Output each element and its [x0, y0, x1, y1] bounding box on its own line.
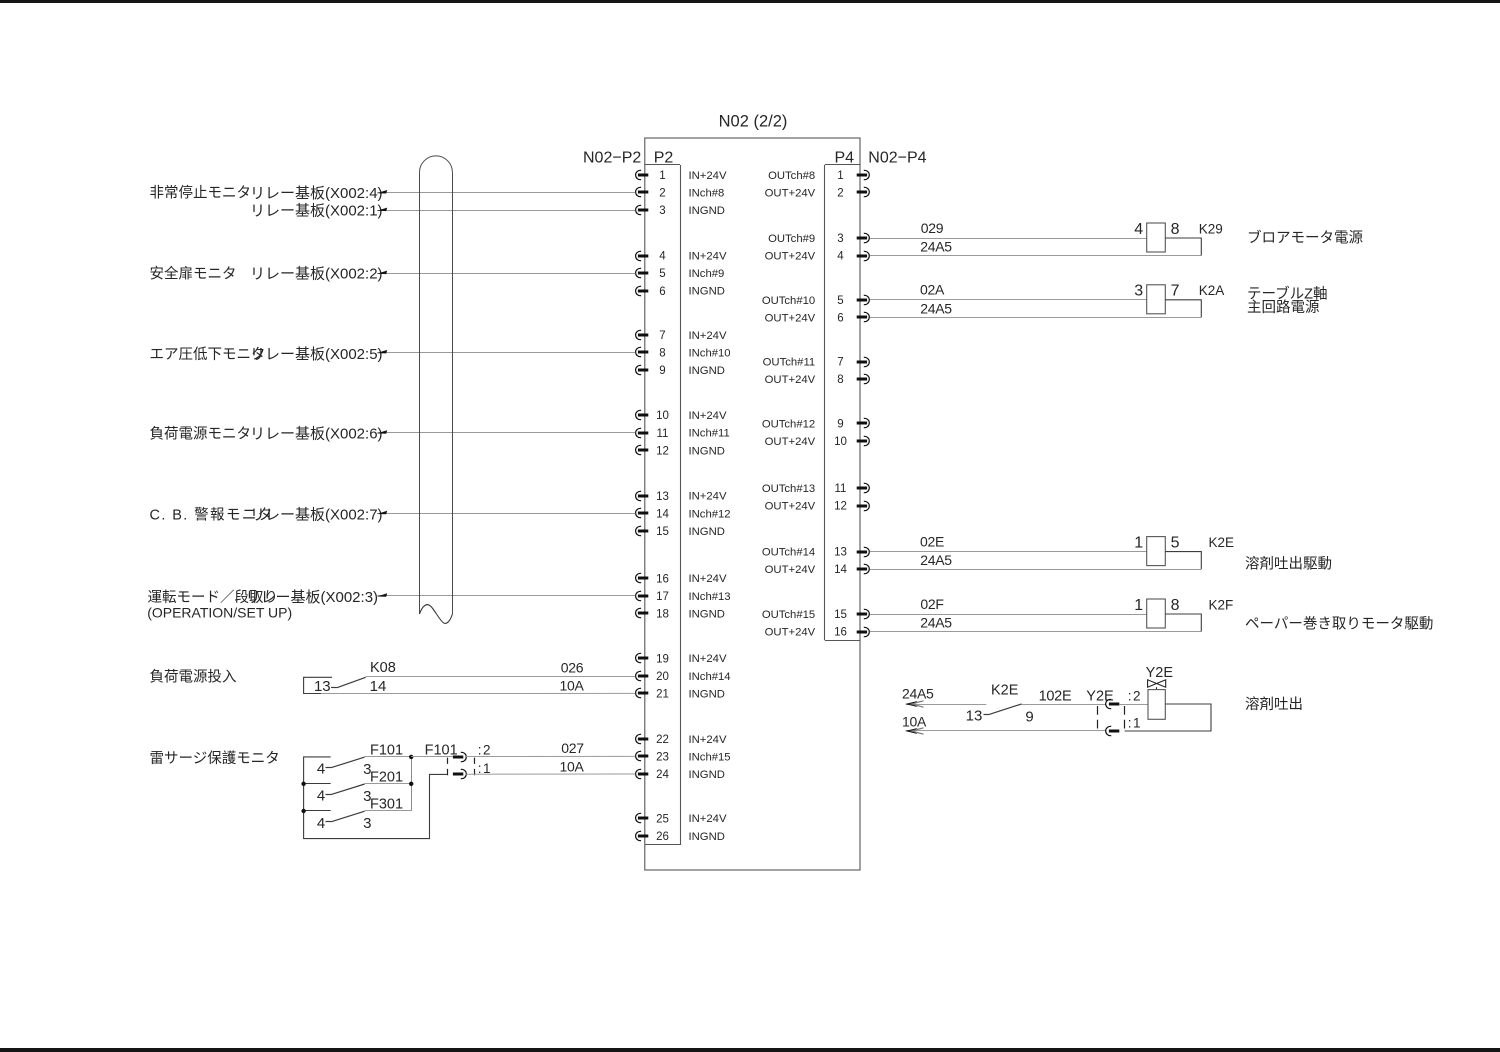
P4 pin 16	[834, 627, 869, 639]
label 非常停止モニタ	[150, 185, 252, 202]
P4 pin 13	[834, 547, 869, 559]
svg-text:21: 21	[656, 689, 669, 701]
connector Y2E plug	[1086, 688, 1142, 735]
P2 pin 11	[636, 428, 669, 440]
wire label 026	[561, 660, 584, 676]
label 安全扉モニタ	[150, 264, 237, 282]
P4 pin 6 signal label OUT+24V	[765, 312, 816, 324]
P2 pin 1 signal label IN+24V	[689, 170, 727, 182]
svg-text:リレー基板(X002:6): リレー基板(X002:6)	[250, 425, 383, 443]
svg-text:3: 3	[1134, 283, 1143, 300]
svg-text:ブロアモータ電源: ブロアモータ電源	[1247, 228, 1363, 246]
svg-text:02E: 02E	[920, 533, 944, 549]
connector block N02 title	[719, 113, 788, 131]
svg-text:リレー基板(X002:2): リレー基板(X002:2)	[250, 265, 383, 283]
P4 pin 8	[837, 374, 869, 386]
P4 pin 5 signal label OUTch#10	[762, 295, 815, 307]
wire solenoid return loop to Y2E:1	[1125, 704, 1212, 731]
svg-text:19: 19	[656, 653, 669, 665]
P2 pin 24 signal label INGND	[689, 769, 725, 781]
label P2	[654, 150, 674, 167]
svg-text:OUTch#12: OUTch#12	[762, 418, 815, 430]
svg-text:N02 (2/2): N02 (2/2)	[719, 113, 788, 131]
relay coil K2A	[1134, 283, 1224, 314]
svg-text:1: 1	[659, 170, 665, 182]
P2 pin 24	[636, 769, 670, 781]
P2 pin 23 signal label INch#15	[689, 751, 731, 763]
svg-text:IN+24V: IN+24V	[689, 170, 727, 182]
svg-text:4: 4	[317, 788, 325, 805]
label N02-P4	[868, 150, 926, 167]
P4 pin 4 signal label OUT+24V	[765, 251, 816, 263]
wire 02A P4 to relay coil K2A	[870, 299, 1147, 301]
P2 pin 14 signal label INch#12	[689, 508, 731, 520]
wire label 10A	[559, 678, 584, 694]
svg-text:リレー基板(X002:5): リレー基板(X002:5)	[250, 345, 383, 363]
P2 pin 7 signal label IN+24V	[689, 330, 727, 342]
svg-text:K2A: K2A	[1199, 283, 1225, 298]
svg-text:INch#14: INch#14	[689, 671, 731, 683]
svg-text:INch#10: INch#10	[689, 347, 731, 359]
svg-text:1: 1	[1134, 534, 1143, 551]
P4 pin 4	[837, 251, 869, 263]
P2 pin 21 signal label INGND	[689, 688, 725, 700]
svg-text:026: 026	[561, 660, 584, 676]
contact F301 4-3	[317, 797, 411, 833]
svg-text:24A5: 24A5	[920, 239, 952, 255]
svg-text:8: 8	[659, 348, 665, 360]
P2 pin 3 signal label INGND	[689, 205, 725, 217]
contact K2E 13-9	[966, 682, 1034, 725]
svg-text:14: 14	[656, 508, 669, 520]
svg-text:16: 16	[834, 627, 847, 639]
wire label 10A (surge)	[559, 758, 584, 774]
P2 pin 9 signal label INGND	[689, 365, 725, 377]
svg-text:20: 20	[656, 671, 669, 683]
wire 029 P4 to relay coil K29	[870, 238, 1147, 240]
P4 pin 14	[834, 564, 869, 576]
label 負荷電源投入	[150, 669, 237, 686]
P4 pin 7 signal label OUTch#11	[763, 357, 816, 369]
svg-text:OUT+24V: OUT+24V	[765, 564, 816, 576]
label 雷サージ保護モニタ	[150, 750, 280, 767]
wire label 10A (Y2E)	[902, 714, 927, 730]
P4 pin 10 signal label OUT+24V	[765, 436, 816, 448]
svg-text::1: :1	[1128, 716, 1142, 731]
svg-text:9: 9	[1025, 709, 1033, 726]
svg-text:2: 2	[837, 188, 843, 200]
P2 pin column frame	[645, 165, 681, 846]
wire relay board X002:5 to P2 pin 8	[377, 350, 636, 354]
svg-text:IN+24V: IN+24V	[689, 734, 727, 746]
svg-text:23: 23	[656, 752, 669, 764]
svg-text:K08: K08	[370, 660, 396, 676]
svg-text:Y2E: Y2E	[1146, 665, 1174, 681]
wire label 24A5 (K2E)	[920, 552, 952, 568]
svg-text:24A5: 24A5	[920, 615, 952, 631]
svg-text:14: 14	[370, 678, 387, 695]
svg-text:12: 12	[656, 445, 669, 457]
svg-text:リレー基板(X002:7): リレー基板(X002:7)	[250, 506, 383, 524]
P2 pin 13	[636, 491, 669, 503]
P4 pin 2	[837, 187, 869, 199]
cable bundle	[420, 156, 453, 624]
wire relay board X002:4 to P2 pin 2	[377, 190, 636, 194]
svg-text:リレー基板(X002:3): リレー基板(X002:3)	[246, 588, 379, 606]
P2 pin 17 signal label INch#13	[689, 591, 731, 603]
connector F101 plug	[425, 742, 492, 778]
P2 pin 23	[636, 751, 669, 763]
svg-text:2: 2	[659, 188, 665, 200]
wire connector Y2E:2 to solenoid	[1119, 704, 1148, 706]
wire 24A5 return to P4	[870, 317, 1201, 319]
svg-text:OUTch#8: OUTch#8	[768, 170, 815, 182]
label N02-P2	[583, 150, 641, 167]
wire 10A connector F101:1 to P2 pin 24	[466, 773, 635, 775]
svg-text:N02−P2: N02−P2	[583, 150, 641, 167]
label 溶剤吐出	[1245, 696, 1303, 713]
wire label 02A	[920, 282, 945, 298]
label リレー基板(X002:3)	[246, 588, 379, 606]
svg-text:102E: 102E	[1039, 688, 1072, 704]
P2 pin 3	[636, 205, 666, 217]
svg-text:負荷電源モニタ: 負荷電源モニタ	[150, 425, 252, 442]
P2 pin 26 signal label INGND	[689, 831, 725, 843]
P2 pin 18 signal label INGND	[689, 608, 725, 620]
svg-text:F101: F101	[425, 742, 458, 758]
label リレー基板(X002:4)	[250, 184, 383, 202]
wire coil K2E to return	[1165, 552, 1201, 570]
P2 pin 16 signal label IN+24V	[689, 573, 727, 585]
svg-text:INGND: INGND	[689, 205, 725, 217]
P4 pin 15	[834, 609, 869, 621]
wire relay board X002:1 to P2 pin 3	[377, 208, 636, 212]
relay coil K29	[1134, 221, 1222, 252]
svg-text:INGND: INGND	[689, 286, 725, 298]
P2 pin 8 signal label INch#10	[689, 347, 731, 359]
label リレー基板(X002:1)	[250, 202, 383, 220]
svg-text:24: 24	[656, 769, 669, 781]
P2 pin 5	[636, 268, 666, 280]
label リレー基板(X002:5)	[250, 345, 383, 363]
connector block N02 outline	[645, 138, 860, 870]
svg-text:安全扉モニタ: 安全扉モニタ	[150, 264, 237, 282]
P4 pin 2 signal label OUT+24V	[765, 188, 816, 200]
label 溶剤吐出駆動	[1245, 555, 1332, 572]
P2 pin 2 signal label INch#8	[689, 188, 725, 200]
svg-text:13: 13	[966, 708, 983, 725]
svg-text:K2E: K2E	[991, 682, 1019, 698]
svg-text:K2F: K2F	[1209, 597, 1234, 612]
P4 pin 14 signal label OUT+24V	[765, 564, 816, 576]
svg-text:INGND: INGND	[689, 831, 725, 843]
svg-text:3: 3	[659, 205, 665, 217]
P2 pin 2	[636, 187, 666, 199]
svg-text:IN+24V: IN+24V	[689, 251, 727, 263]
P2 pin 10	[636, 410, 669, 422]
P4 pin 13 signal label OUTch#14	[762, 547, 815, 559]
svg-text:10: 10	[656, 410, 669, 422]
label テーブルZ軸	[1247, 284, 1328, 302]
P2 pin 17	[636, 591, 669, 603]
svg-text:14: 14	[834, 564, 847, 576]
svg-text:22: 22	[656, 734, 669, 746]
svg-text:INch#15: INch#15	[689, 751, 731, 763]
P4 pin 9 signal label OUTch#12	[762, 418, 815, 430]
label P4	[835, 150, 855, 167]
P4 pin 11 signal label OUTch#13	[762, 483, 815, 495]
label リレー基板(X002:7)	[250, 506, 383, 524]
svg-text:5: 5	[837, 295, 843, 307]
svg-text:10A: 10A	[902, 714, 927, 730]
svg-text:11: 11	[835, 483, 847, 495]
P2 pin 1	[636, 170, 666, 182]
relay coil K2E	[1134, 534, 1234, 565]
svg-text::1: :1	[478, 761, 492, 776]
svg-text:INGND: INGND	[689, 688, 725, 700]
svg-text:7: 7	[837, 357, 843, 369]
P2 pin 21	[636, 688, 669, 700]
P2 pin 11 signal label INch#11	[689, 428, 730, 440]
P2 pin 20	[636, 671, 669, 683]
wire label 02F	[920, 596, 943, 612]
contact F101 4-3	[317, 743, 411, 779]
P2 pin 22 signal label IN+24V	[689, 734, 727, 746]
P4 pin 3	[837, 233, 869, 245]
fuse monitor bus bracket	[304, 757, 447, 839]
svg-text:1: 1	[1134, 597, 1143, 614]
wire 102E contact to connector Y2E	[1022, 704, 1106, 706]
svg-text:OUTch#9: OUTch#9	[768, 233, 815, 245]
svg-text:INGND: INGND	[689, 445, 725, 457]
P4 pin 11	[835, 483, 870, 495]
wire 24A5 feed (left arrow)	[905, 701, 986, 707]
P2 pin 8	[636, 347, 666, 359]
wire relay board X002:3 to P2 pin 17	[377, 593, 636, 597]
P2 pin 15 signal label INGND	[689, 526, 725, 538]
svg-text:K29: K29	[1199, 221, 1223, 236]
wire coil K2F to return	[1165, 614, 1201, 632]
svg-text:02A: 02A	[920, 282, 945, 298]
wire 24A5 return to P4	[870, 569, 1201, 571]
P4 pin column frame	[825, 165, 861, 641]
P2 pin 15	[636, 526, 669, 538]
svg-text:OUT+24V: OUT+24V	[765, 436, 816, 448]
wire label 027	[561, 740, 584, 756]
svg-text:24A5: 24A5	[902, 685, 934, 701]
svg-text:エア圧低下モニタ: エア圧低下モニタ	[150, 346, 266, 363]
svg-text:INch#9: INch#9	[689, 268, 725, 280]
svg-text:N02−P4: N02−P4	[868, 150, 926, 167]
svg-text:4: 4	[659, 251, 666, 263]
svg-text:INch#8: INch#8	[689, 188, 725, 200]
wire label 24A5 (K2F)	[920, 615, 952, 631]
contact K08 13-14 (load power on)	[304, 660, 396, 695]
svg-text:INGND: INGND	[689, 526, 725, 538]
svg-text:4: 4	[317, 815, 325, 832]
svg-text:5: 5	[659, 268, 665, 280]
svg-text:OUT+24V: OUT+24V	[765, 312, 816, 324]
svg-text:24A5: 24A5	[920, 300, 952, 316]
svg-text:24A5: 24A5	[920, 552, 952, 568]
svg-text:雷サージ保護モニタ: 雷サージ保護モニタ	[150, 750, 280, 767]
svg-text:1: 1	[837, 170, 843, 182]
svg-text:リレー基板(X002:1): リレー基板(X002:1)	[250, 202, 383, 220]
label ブロアモータ電源	[1247, 228, 1363, 246]
wire label 02E	[920, 533, 944, 549]
junction dots fuse bus	[301, 755, 413, 814]
P2 pin 12 signal label INGND	[689, 445, 725, 457]
svg-text:非常停止モニタ: 非常停止モニタ	[150, 185, 252, 202]
P4 pin 16 signal label OUT+24V	[765, 627, 816, 639]
P4 pin 9	[837, 418, 869, 430]
svg-text:027: 027	[561, 740, 584, 756]
label 運転モード/段取り	[148, 589, 279, 606]
P4 pin 12 signal label OUT+24V	[765, 501, 816, 513]
P4 pin 10	[834, 436, 869, 448]
label ペーパー巻き取りモータ駆動	[1245, 615, 1433, 632]
svg-text:OUT+24V: OUT+24V	[765, 627, 816, 639]
svg-text:3: 3	[363, 815, 371, 832]
svg-text:18: 18	[656, 609, 669, 621]
svg-text:16: 16	[656, 573, 669, 585]
svg-text:IN+24V: IN+24V	[689, 330, 727, 342]
P2 pin 25 signal label IN+24V	[689, 813, 727, 825]
P2 pin 12	[636, 445, 669, 457]
svg-text:3: 3	[837, 233, 843, 245]
P2 pin 5 signal label INch#9	[689, 268, 725, 280]
svg-text:26: 26	[656, 831, 669, 843]
wire 24A5 return to P4	[870, 631, 1201, 633]
P4 pin 8 signal label OUT+24V	[765, 374, 816, 386]
svg-text:4: 4	[317, 761, 325, 778]
P4 pin 5	[837, 295, 869, 307]
svg-text:10A: 10A	[559, 758, 584, 774]
P2 pin 19 signal label IN+24V	[689, 653, 727, 665]
svg-text:15: 15	[834, 609, 847, 621]
svg-text::2: :2	[1128, 688, 1142, 703]
P2 pin 25	[636, 813, 669, 825]
svg-text::2: :2	[478, 742, 492, 757]
contact F201 4-3	[317, 770, 411, 806]
label リレー基板(X002:6)	[250, 425, 383, 443]
P2 pin 19	[636, 653, 669, 665]
P2 pin 14	[636, 508, 670, 520]
wire label 102E	[1039, 688, 1072, 704]
label C.B.警報モニタ	[150, 506, 274, 523]
svg-text:13: 13	[834, 547, 847, 559]
svg-text:INch#13: INch#13	[689, 591, 731, 603]
svg-text:リレー基板(X002:4): リレー基板(X002:4)	[250, 184, 383, 202]
P2 pin 20 signal label INch#14	[689, 671, 731, 683]
svg-text:IN+24V: IN+24V	[689, 653, 727, 665]
P2 pin 6	[636, 286, 666, 298]
svg-text:OUT+24V: OUT+24V	[765, 501, 816, 513]
P2 pin 4 signal label IN+24V	[689, 251, 727, 263]
P2 pin 10 signal label IN+24V	[689, 410, 727, 422]
svg-text:13: 13	[314, 678, 331, 695]
wire label 24A5 (Y2E)	[902, 685, 934, 701]
svg-text:8: 8	[1171, 221, 1180, 238]
wire relay board X002:6 to P2 pin 11	[377, 430, 636, 434]
P4 pin 6	[837, 312, 869, 324]
wire label 24A5 (K29)	[920, 239, 952, 255]
wire 027 connector F101:2 to P2 pin 23	[466, 755, 635, 757]
svg-text:主回路電源: 主回路電源	[1247, 299, 1320, 316]
svg-text:10: 10	[834, 436, 847, 448]
svg-text:ペーパー巻き取りモータ駆動: ペーパー巻き取りモータ駆動	[1245, 615, 1433, 632]
svg-text:OUTch#14: OUTch#14	[762, 547, 815, 559]
svg-text:17: 17	[656, 591, 669, 603]
svg-text:INGND: INGND	[689, 608, 725, 620]
svg-text:OUT+24V: OUT+24V	[765, 374, 816, 386]
label 負荷電源モニタ	[150, 425, 252, 442]
svg-text:7: 7	[659, 330, 665, 342]
wire 10A return (left arrow)	[905, 728, 1106, 734]
P4 pin 7	[837, 357, 869, 369]
P2 pin 18	[636, 608, 669, 620]
svg-text:IN+24V: IN+24V	[689, 491, 727, 503]
svg-text:OUTch#11: OUTch#11	[763, 357, 816, 369]
svg-text:8: 8	[1171, 597, 1180, 614]
svg-text:4: 4	[837, 251, 844, 263]
svg-text:9: 9	[837, 419, 843, 431]
svg-text:25: 25	[656, 813, 669, 825]
wire relay board X002:7 to P2 pin 14	[377, 511, 636, 515]
svg-text:OUTch#10: OUTch#10	[762, 295, 815, 307]
wire coil K29 to return	[1165, 238, 1201, 256]
svg-text:13: 13	[656, 491, 669, 503]
svg-text:INGND: INGND	[689, 365, 725, 377]
relay coil K2F	[1134, 597, 1233, 628]
P4 pin 3 signal label OUTch#9	[768, 233, 815, 245]
label リレー基板(X002:2)	[250, 265, 383, 283]
svg-text:OUTch#13: OUTch#13	[762, 483, 815, 495]
wire label 24A5 (K2A)	[920, 300, 952, 316]
svg-text:11: 11	[657, 428, 669, 440]
svg-text:溶剤吐出駆動: 溶剤吐出駆動	[1245, 555, 1332, 572]
svg-text:029: 029	[921, 220, 944, 236]
svg-text:OUT+24V: OUT+24V	[765, 188, 816, 200]
svg-text:INGND: INGND	[689, 769, 725, 781]
wire 02E P4 to relay coil K2E	[870, 551, 1147, 553]
svg-text:6: 6	[837, 312, 843, 324]
P2 pin 16	[636, 573, 669, 585]
svg-text:IN+24V: IN+24V	[689, 813, 727, 825]
svg-text:6: 6	[659, 286, 665, 298]
P4 pin 1 signal label OUTch#8	[768, 170, 815, 182]
P2 pin 4	[636, 251, 667, 263]
wire coil K2A to return	[1165, 300, 1201, 318]
svg-text:IN+24V: IN+24V	[689, 410, 727, 422]
P4 pin 12	[834, 501, 869, 513]
svg-text:12: 12	[834, 501, 847, 513]
svg-text:9: 9	[659, 365, 665, 377]
svg-text:INch#11: INch#11	[689, 428, 730, 440]
svg-text:IN+24V: IN+24V	[689, 573, 727, 585]
svg-text:02F: 02F	[920, 596, 943, 612]
P4 pin 15 signal label OUTch#15	[762, 609, 815, 621]
svg-text:K2E: K2E	[1209, 535, 1235, 550]
wire 24A5 return to P4	[870, 255, 1201, 257]
svg-text:7: 7	[1171, 283, 1180, 300]
svg-text:INch#12: INch#12	[689, 508, 731, 520]
label (OPERATION/SET UP)	[147, 605, 292, 621]
svg-text:(OPERATION/SET UP): (OPERATION/SET UP)	[147, 605, 292, 621]
wire 026 K08 to P2 pin 20	[366, 676, 636, 678]
P2 pin 22	[636, 734, 669, 746]
svg-text:OUT+24V: OUT+24V	[765, 251, 816, 263]
